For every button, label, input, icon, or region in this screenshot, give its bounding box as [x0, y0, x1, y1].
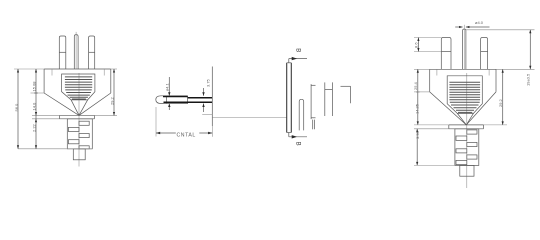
body left side	[43, 69, 45, 93]
zipper rib 5 (right)	[467, 155, 477, 159]
ext top right	[496, 68, 535, 70]
inner slant right	[466, 113, 473, 125]
svg-text:2.22: 2.22	[31, 123, 36, 132]
flange right end	[94, 115, 96, 118]
pin L (left blade)	[441, 38, 451, 70]
dim 8.6	[414, 37, 441, 39]
pin L step tick	[59, 51, 66, 53]
dimension column line	[35, 69, 37, 149]
body left chamfer	[44, 93, 79, 115]
svg-text:19±0.5: 19±0.5	[526, 73, 531, 86]
ext collar left	[414, 128, 449, 130]
zipper rib 1 (right)	[467, 130, 477, 134]
svg-text:14.0: 14.0	[31, 102, 36, 111]
zipper rib 3 (right)	[467, 142, 477, 146]
svg-text:B: B	[295, 48, 301, 52]
dim ext line facet right	[95, 114, 118, 116]
svg-text:ø4.0: ø4.0	[475, 20, 484, 25]
flange bottom line	[60, 118, 95, 120]
pin R (right blade)	[481, 38, 488, 70]
recess grip stripes	[65, 77, 92, 99]
section marker bottom	[288, 133, 290, 137]
svg-text:29.2: 29.2	[498, 98, 503, 107]
left dim column	[417, 69, 419, 125]
centreline upper	[75, 32, 77, 69]
zipper rib 3 (right)	[79, 134, 89, 138]
body right chamfer	[79, 93, 111, 115]
blade pin legs	[312, 120, 314, 130]
svg-text:3.75: 3.75	[206, 78, 211, 87]
svg-text:56.0: 56.0	[14, 103, 19, 112]
zipper rib 4 (left)	[456, 149, 467, 153]
centreline upper	[463, 25, 465, 70]
pin core top (bold)	[163, 96, 188, 98]
label recess outline	[62, 74, 95, 100]
ext mid left	[414, 91, 430, 93]
cable anchor box	[73, 149, 85, 160]
dim o4.0	[455, 26, 462, 28]
pin R step tick	[89, 51, 95, 53]
dim ext line collar	[32, 118, 60, 120]
ext facet right	[484, 124, 508, 126]
svg-text:25.4: 25.4	[413, 81, 418, 90]
mould stub left	[436, 69, 438, 75]
ext bottom	[414, 164, 455, 166]
plug face wall	[211, 67, 213, 127]
mould stub right	[488, 69, 490, 75]
inner slant right	[79, 100, 88, 116]
plug face edge (double line)	[286, 63, 288, 133]
pin M (centre round pin)	[463, 29, 466, 69]
body left side	[429, 69, 431, 92]
pin neck top (bold)	[188, 97, 213, 99]
pin M (centre round pin, front)	[74, 35, 78, 69]
blade pin profile	[310, 84, 312, 119]
centre axis line to section view	[213, 116, 287, 118]
svg-text:ø4.1: ø4.1	[164, 83, 169, 92]
svg-text:CNTAL: CNTAL	[177, 132, 196, 138]
dim o4.1 line	[168, 77, 170, 96]
dim 3.75 upper arrow	[203, 88, 205, 96]
dim 19+-0.5	[529, 30, 531, 70]
dim ext line bottom	[18, 148, 92, 150]
inner slant left	[71, 100, 79, 116]
label recess outline	[447, 76, 482, 114]
mould stub left	[51, 69, 53, 76]
pin L (left blade)	[59, 36, 66, 69]
cable anchor box	[460, 165, 474, 176]
round pin profile	[299, 99, 304, 130]
zipper rib 2 (left)	[68, 127, 79, 131]
pin length dim ext left	[155, 107, 157, 137]
zipper rib 5 (right)	[79, 146, 89, 149]
pin length dim ext right (wall extension)	[211, 126, 213, 137]
leader tick lower	[202, 114, 212, 116]
body right side	[495, 69, 497, 92]
svg-text:29.2: 29.2	[109, 96, 114, 105]
svg-text:8.6: 8.6	[414, 42, 419, 48]
zipper rib 1 (right)	[79, 121, 89, 125]
pin cap weld tick	[166, 96, 168, 104]
body top edge	[44, 68, 111, 70]
dimension 56.0 line	[17, 69, 19, 149]
ext top left	[414, 68, 430, 70]
svg-text:3.94: 3.94	[415, 130, 420, 139]
strain relief outer rect	[455, 129, 479, 166]
pin R (right blade)	[89, 36, 95, 69]
H profile	[324, 82, 326, 116]
dimension 29.2 right line	[111, 68, 117, 70]
svg-text:14.25: 14.25	[415, 103, 420, 114]
pin length dimension line	[156, 132, 212, 134]
corner profile	[341, 85, 351, 87]
centreline lower	[466, 73, 468, 188]
pin length label	[176, 130, 200, 138]
zipper rib 2 (left)	[456, 136, 467, 140]
bottom left dim	[416, 129, 418, 166]
flange top line	[60, 114, 95, 116]
zipper rib 4 (left)	[68, 140, 79, 144]
body top edge	[430, 68, 496, 70]
flange bottom line	[449, 128, 484, 130]
body right chamfer	[466, 92, 496, 125]
zipper rib 6 (left)	[456, 160, 467, 164]
dim ext line mid	[31, 92, 45, 94]
dim 29.2 right	[502, 69, 504, 125]
pin outline (thin envelope)	[156, 96, 188, 104]
flange top line	[449, 124, 484, 126]
dim ext line facet	[32, 114, 60, 116]
dim ext line top	[14, 68, 44, 70]
dim 3.75 lower arrow	[203, 104, 205, 113]
recess stripes	[449, 82, 480, 112]
flange right end	[483, 125, 485, 129]
ext facet left	[414, 124, 449, 126]
svg-text:B: B	[295, 142, 301, 146]
inner slant left	[457, 113, 466, 125]
pin core bottom (bold)	[164, 101, 213, 103]
svg-text:15.08: 15.08	[31, 81, 36, 92]
flange left end	[448, 125, 450, 129]
ext from pin tip	[466, 29, 535, 31]
body left chamfer	[430, 92, 467, 125]
section marker top	[288, 59, 290, 63]
centreline lower	[78, 73, 80, 167]
body right side	[110, 69, 112, 93]
strain relief outer rect	[67, 119, 92, 149]
mould stub right	[103, 69, 105, 76]
flange left end	[59, 115, 61, 118]
